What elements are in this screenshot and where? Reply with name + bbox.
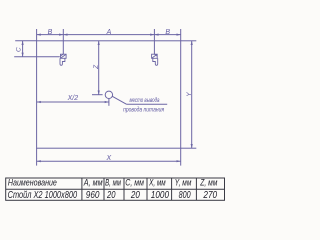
svg-text:B: B	[165, 29, 170, 36]
arrowheads	[22, 34, 193, 163]
circle level tick	[92, 94, 103, 96]
X/2 arrow right	[105, 101, 109, 103]
extension line hook1 up	[62, 29, 64, 54]
table value row	[8, 190, 218, 201]
svg-text:C: C	[16, 47, 23, 52]
svg-text:800: 800	[179, 190, 191, 201]
svg-text:Стойл X2 1000x800: Стойл X2 1000x800	[8, 190, 78, 201]
svg-text:1000: 1000	[151, 190, 170, 201]
svg-text:20: 20	[130, 190, 140, 201]
top dim arrow at panel left edge	[37, 34, 41, 36]
svg-text:20: 20	[106, 190, 116, 201]
svg-text:Z, мм: Z, мм	[199, 177, 217, 188]
extension line hook2 up	[153, 29, 155, 54]
X arrow left	[37, 160, 41, 162]
svg-text:Y: Y	[186, 92, 193, 97]
Y dim extension bottom	[181, 147, 197, 149]
table header row	[8, 177, 218, 188]
svg-text:место вывода: место вывода	[130, 96, 160, 104]
svg-text:провода питания: провода питания	[123, 106, 164, 114]
svg-text:Наименование: Наименование	[8, 177, 57, 188]
svg-text:X: X	[105, 155, 111, 162]
svg-text:960: 960	[86, 190, 100, 201]
Z dimension line	[98, 41, 100, 95]
panel outline	[37, 41, 181, 148]
leader line	[112, 96, 126, 104]
circle center extension down	[108, 99, 110, 106]
note text	[123, 96, 164, 114]
top dim arrow at panel right edge	[177, 34, 181, 36]
dimension labels	[16, 29, 193, 162]
table row divider	[6, 188, 225, 190]
svg-text:B: B	[48, 29, 53, 36]
svg-text:Y, мм: Y, мм	[175, 177, 192, 188]
top dim arrows at hook1	[59, 34, 63, 36]
note shelf line	[127, 103, 168, 105]
Y arrow bottom	[191, 144, 193, 148]
X/2 arrow left	[37, 101, 41, 103]
svg-text:B, мм: B, мм	[105, 177, 121, 188]
extension line right edge up	[180, 29, 182, 41]
X dim extension left	[36, 148, 38, 165]
X/2 dimension line	[37, 101, 109, 103]
Y dim extension top	[181, 40, 197, 42]
table outer border	[6, 178, 225, 200]
mounting hook 1	[60, 54, 66, 65]
svg-text:A, мм: A, мм	[83, 177, 103, 188]
Z dim arrow bottom	[98, 91, 100, 95]
top dim arrows at hook2	[150, 34, 154, 36]
mounting hook 2	[152, 54, 158, 65]
C dim arrow bottom	[22, 53, 24, 57]
C dim arrow top	[22, 41, 24, 45]
table column dividers	[81, 178, 83, 200]
power outlet circle	[105, 91, 112, 98]
svg-text:X/2: X/2	[67, 95, 79, 102]
svg-text:270: 270	[203, 190, 218, 201]
Y arrow top	[191, 41, 193, 45]
C dim extension top	[15, 40, 36, 42]
X arrow right	[177, 160, 181, 162]
C dim extension bottom	[14, 56, 60, 58]
svg-text:X, мм: X, мм	[148, 177, 166, 188]
svg-text:A: A	[106, 29, 112, 36]
Y dimension line	[191, 41, 193, 148]
X dimension line	[37, 160, 181, 162]
top dimension line	[37, 34, 181, 36]
table grid	[6, 178, 225, 200]
X dim extension right	[180, 148, 182, 165]
extension line left edge up	[36, 29, 38, 41]
svg-text:C, мм: C, мм	[125, 177, 144, 188]
Z dim arrow top	[98, 41, 100, 45]
C dimension line	[22, 41, 24, 57]
